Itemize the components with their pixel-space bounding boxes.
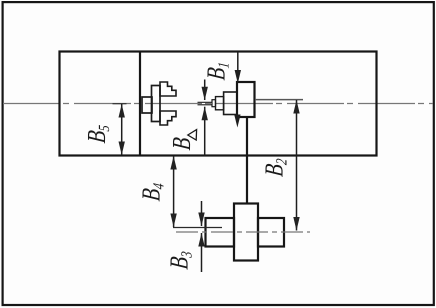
lower unit centre block xyxy=(234,204,258,261)
dimension B3 upper line with arrow xyxy=(198,201,204,226)
collet small step xyxy=(212,100,216,107)
chuck lower jaw xyxy=(160,111,176,125)
svg-text:B2: B2 xyxy=(260,156,291,178)
tool holder rectangle xyxy=(237,82,255,117)
centerline tick at B5 arrow xyxy=(113,103,127,105)
drill lower edge xyxy=(198,104,213,106)
hole axis line xyxy=(173,227,222,229)
spindle axis centerline xyxy=(3,103,433,105)
dimension B4 xyxy=(170,156,176,227)
chuck body xyxy=(152,86,161,122)
dimension B-delta lower line with arrow xyxy=(202,107,208,156)
lower unit axis centerline xyxy=(176,231,310,233)
chuck spindle nose xyxy=(142,97,152,113)
dimension B2 xyxy=(293,100,299,231)
svg-text:B5: B5 xyxy=(83,123,114,145)
dimension B1 upper line with arrow xyxy=(202,80,208,101)
dimension arrow below holder xyxy=(234,115,240,128)
machine body rectangle xyxy=(60,52,377,156)
drill chuck block xyxy=(224,92,237,115)
svg-text:B3: B3 xyxy=(165,249,196,271)
dimension B5 xyxy=(119,104,125,155)
chuck upper jaw xyxy=(160,82,176,96)
lower unit right journal xyxy=(258,218,284,247)
drill upper edge xyxy=(198,101,213,103)
lower unit left journal xyxy=(206,218,235,247)
tool axis extension line xyxy=(255,99,303,101)
dimension B3 lower line with arrow xyxy=(198,233,204,272)
connector link to lower unit xyxy=(246,117,248,204)
svg-text:B4: B4 xyxy=(137,181,168,203)
collet block xyxy=(216,97,224,110)
dimension line at holder, upper segment with arrow xyxy=(235,52,241,84)
headstock divider wall xyxy=(139,52,141,156)
svg-text:B1: B1 xyxy=(202,60,233,82)
